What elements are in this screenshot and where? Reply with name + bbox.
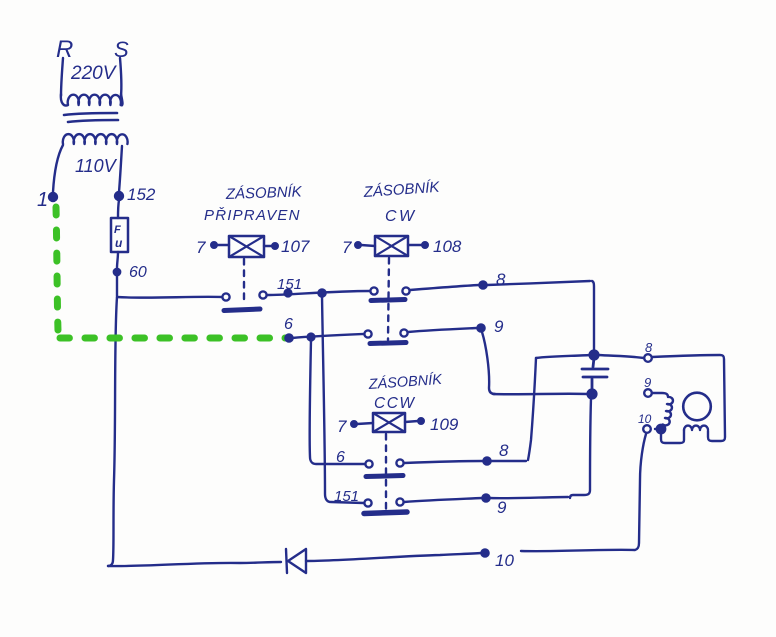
svg-text:S: S	[114, 37, 129, 62]
wire node60 down and branch right	[116, 275, 118, 296]
svg-text:151: 151	[334, 488, 359, 505]
svg-text:6: 6	[284, 316, 293, 333]
motor M1 outline and windings	[652, 355, 725, 443]
svg-text:ZÁSOBNÍK: ZÁSOBNÍK	[225, 183, 303, 203]
contact K1 151-row (circles and bar)	[222, 291, 266, 310]
wire right edge down to cap-top junction	[592, 281, 594, 351]
contact K3 6-row	[365, 459, 403, 476]
wire junction6 down to CCW 6-contact	[310, 340, 365, 464]
svg-text:CCW: CCW	[374, 395, 416, 412]
svg-text:8: 8	[499, 441, 509, 460]
junction cap bottom	[588, 390, 597, 399]
motor terminal 8	[644, 354, 652, 362]
svg-text:109: 109	[430, 415, 459, 434]
motor terminal 9	[644, 389, 652, 397]
relay K1 coil ZASOBNIK PRIPRAVEN	[196, 183, 310, 257]
svg-text:107: 107	[281, 237, 310, 256]
svg-text:9: 9	[497, 498, 507, 517]
svg-text:7: 7	[337, 417, 347, 436]
green routing highlight horizontal	[60, 335, 288, 342]
relay K3 coil ZASOBNIK CCW	[337, 371, 459, 436]
junction cap top	[590, 351, 599, 360]
motor node 10 junction	[657, 425, 665, 433]
wire bottom run to diode	[108, 562, 281, 566]
svg-text:108: 108	[433, 237, 462, 256]
wire node9 down then right to cap-bottom line	[482, 332, 495, 394]
contact K2 151-row	[370, 287, 409, 300]
wire node10 right and up to motor terminal 10	[521, 434, 646, 551]
svg-text:u: u	[115, 236, 123, 250]
node 1	[49, 193, 57, 201]
svg-text:ZÁSOBNÍK: ZÁSOBNÍK	[367, 371, 444, 393]
wire CCW151-contact to node 9 bottom and right	[404, 497, 568, 502]
wire K1 contact to node 151 and CW contact	[267, 291, 370, 295]
junction 6-drop	[308, 334, 315, 341]
svg-text:9: 9	[644, 375, 651, 390]
svg-text:60: 60	[129, 264, 147, 281]
wire CW6-contact to node 9	[408, 328, 477, 332]
wire 60-row to K1 contact	[117, 296, 222, 299]
wire diode to node 10	[306, 553, 481, 561]
wire CW151-contact to node 8 and right edge	[410, 281, 590, 290]
node 9 bottom	[482, 494, 489, 501]
node 8 top	[479, 281, 486, 288]
node 152	[115, 192, 123, 200]
svg-text:F: F	[114, 224, 121, 236]
svg-text:1: 1	[37, 189, 48, 211]
svg-text:R: R	[56, 36, 73, 63]
node 6	[285, 334, 292, 341]
relay K2 coil ZASOBNIK CW	[342, 179, 462, 257]
wire junction151 down to CCW 151-contact	[322, 296, 364, 503]
svg-text:151: 151	[277, 276, 302, 293]
wire up from node8-bottom to terminal-8 line	[528, 358, 536, 460]
junction 151-drop	[318, 289, 325, 296]
svg-text:9: 9	[494, 317, 504, 336]
transformer T1 secondary coil	[53, 134, 128, 192]
transformer T1 primary coil	[61, 58, 123, 106]
transformer core	[64, 113, 118, 122]
wire left vertical down to bottom	[108, 297, 117, 566]
svg-text:ZÁSOBNÍK: ZÁSOBNÍK	[362, 179, 441, 201]
diode D1	[286, 549, 306, 573]
svg-text:10: 10	[638, 412, 652, 426]
contact K3 151-row	[364, 498, 407, 513]
svg-text:7: 7	[196, 238, 206, 257]
green routing highlight vertical	[56, 207, 58, 331]
wire terminal-8 line	[536, 355, 644, 358]
node 10	[481, 549, 488, 556]
svg-text:220V: 220V	[70, 63, 118, 84]
capacitor C1	[582, 358, 608, 390]
contact K2 6-row	[364, 329, 407, 343]
svg-text:7: 7	[342, 238, 352, 257]
relay K2 actuator dashed link	[388, 258, 389, 340]
svg-text:8: 8	[496, 270, 506, 289]
svg-text:110V: 110V	[75, 156, 118, 176]
svg-text:PŘIPRAVEN: PŘIPRAVEN	[204, 207, 301, 224]
svg-text:CW: CW	[385, 208, 417, 225]
node 8 bottom	[483, 457, 490, 464]
svg-text:8: 8	[645, 340, 653, 355]
motor terminal 10	[643, 425, 651, 433]
svg-text:6: 6	[336, 449, 345, 466]
relay K1 actuator dashed link	[243, 259, 245, 305]
wire 152 to fuse	[118, 200, 119, 218]
wire cap-bottom down to 9-row	[570, 398, 591, 498]
node 9 top	[477, 324, 484, 331]
relay K3 actuator dashed link	[385, 434, 387, 510]
wire node6 to CW 6-contact	[292, 334, 364, 338]
svg-text:10: 10	[495, 551, 514, 570]
wire CCW6-contact to node 8 bottom then up	[404, 461, 526, 463]
node 151	[285, 290, 292, 297]
node 60	[114, 269, 120, 275]
wire fuse to node 60	[117, 252, 118, 268]
fuse FU	[111, 218, 128, 252]
svg-text:152: 152	[127, 185, 156, 204]
